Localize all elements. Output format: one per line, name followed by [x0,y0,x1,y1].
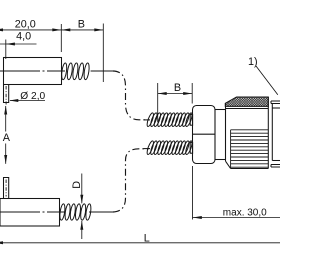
connector front thread crest lines (top) [271,101,280,104]
svg-text:L: L [144,232,150,244]
dimension 4,0 [0,40,37,60]
dimension 20,0 [0,24,61,52]
bottom head pin centerline [5,180,7,197]
bottom cable flexible route (dashed) [113,149,149,212]
dimension D (vertical at bottom spring) [80,174,83,240]
leader line for note 1) [256,66,278,95]
connector upper inlet spring [146,112,193,127]
upper cable stub into spring [144,119,151,121]
bushing middle split line [193,133,216,135]
connector front thread crest edge (top) [270,101,272,104]
top cable straight segment [91,70,113,72]
dimension B (top) [61,24,103,83]
connector front thread crest edge (bottom) [270,165,272,168]
bottom head axis centerline [0,211,65,213]
nut grip ribs [231,130,269,167]
svg-text:20,0: 20,0 [15,19,36,31]
upper spring ferrule [190,114,192,125]
lower spring ferrule [190,142,192,153]
knurled nut silhouette top line [226,108,268,110]
bottom head pin (sensing tip, points up) [4,178,9,199]
top head body [4,58,62,85]
connector cable-entry bushing [193,106,216,164]
bottom head body [0,199,60,227]
svg-text:A: A [3,132,11,144]
knurled nut bottom-left chamfer [226,161,231,168]
knurled nut left edge [225,103,227,161]
svg-text:1): 1) [248,56,258,68]
knurled nut bottom edge [231,168,269,170]
top strain-relief spring [61,63,90,80]
dimension A (vertical) [4,106,7,165]
dimension B (middle, above connector spring) [158,83,193,122]
lower cable stub into spring [144,148,151,150]
nut rib section left edge [230,130,232,169]
svg-text:4,0: 4,0 [16,31,31,43]
top cable flexible route (dashed) [113,71,149,120]
connector neck body [215,110,226,160]
svg-text:max. 30,0: max. 30,0 [223,208,267,219]
connector front thread crest lines (bottom) [271,165,280,168]
bottom cable straight segment [89,211,113,213]
top head axis centerline [0,70,65,72]
bottom strain-relief spring [59,204,92,221]
svg-text:B: B [78,18,85,30]
connector front body left edge [271,104,273,161]
svg-text:Ø 2,0: Ø 2,0 [20,91,45,102]
top head pin centerline [5,86,7,105]
connector front body top line [272,107,280,109]
svg-text:D: D [71,181,83,189]
top head pin (sensing tip, points down) [4,85,9,103]
connector front body bottom line [272,160,280,162]
connector lower inlet spring [146,140,193,155]
dimension L [0,241,280,244]
svg-text:B: B [174,82,181,94]
dimension max. 30,0 [193,166,281,220]
knurled coupling nut: hatched top band [225,97,268,106]
knurled nut right edge [267,97,269,169]
leader arrow for diameter 2,0 [9,99,45,102]
